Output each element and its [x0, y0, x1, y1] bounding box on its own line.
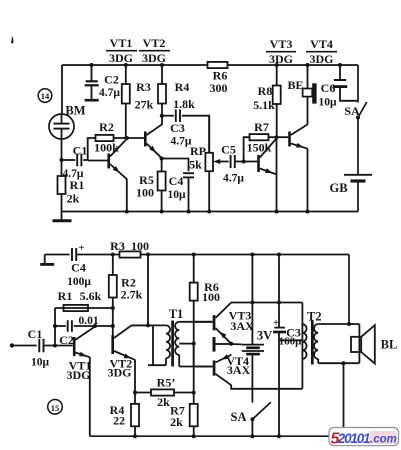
svg-text:C4: C4 — [71, 261, 86, 275]
svg-text:27k: 27k — [135, 98, 154, 112]
svg-text:100k: 100k — [94, 141, 119, 155]
svg-text:R5’: R5’ — [157, 376, 176, 390]
resistor R1 2k (top) — [58, 160, 85, 212]
wire C3 to T2 link — [279, 339, 302, 341]
svg-text:C1: C1 — [28, 327, 43, 341]
potentiometer RP 5k — [189, 116, 229, 214]
svg-text:+: + — [273, 318, 279, 329]
svg-text:3DG: 3DG — [67, 368, 91, 382]
svg-text:C4: C4 — [169, 174, 184, 188]
wire VT4 collector up to BE — [307, 97, 309, 125]
node T1 center tap — [192, 342, 196, 346]
svg-text:5k: 5k — [189, 158, 202, 172]
svg-text:14: 14 — [41, 91, 50, 101]
svg-text:3DG: 3DG — [142, 51, 166, 65]
wire VT3 emitter down to rail — [275, 137, 279, 213]
svg-text:2k: 2k — [157, 395, 170, 409]
svg-text:2k: 2k — [170, 415, 183, 429]
svg-text:4.7μ: 4.7μ — [171, 136, 192, 148]
node B (R7/R8/VT3 collector/VT4 base) — [275, 135, 279, 139]
resistor R5' 2k — [133, 376, 194, 410]
resistor R2 100k — [94, 120, 119, 155]
watermark 520101.com — [329, 428, 399, 448]
emitter common bar — [213, 337, 232, 352]
resistor R4 1.8k — [158, 63, 195, 125]
label VT1/3DG — [106, 36, 137, 65]
label VT3/3AX — [229, 309, 254, 334]
wire emitters to battery — [231, 343, 242, 345]
label T1 — [169, 307, 184, 321]
svg-text:+: + — [79, 243, 85, 254]
wire VT4 emitter down to rail — [306, 149, 310, 214]
label VT4/3AX — [226, 354, 250, 377]
svg-text:VT2: VT2 — [143, 36, 166, 50]
svg-text:C5: C5 — [221, 143, 236, 157]
transformer T1 core — [171, 321, 174, 367]
svg-text:R1: R1 — [70, 178, 85, 192]
wire bottom rail (bottom circuit) — [90, 435, 345, 437]
label VT2/3DG — [139, 36, 170, 65]
svg-text:R1: R1 — [58, 289, 73, 303]
transistor VT4 (bottom, 3AX) — [194, 354, 232, 385]
transformer T1 primary — [131, 325, 170, 365]
svg-text:2.7k: 2.7k — [121, 288, 143, 302]
svg-text:R8: R8 — [258, 84, 273, 98]
resistor R1 5.6k (bottom) — [55, 289, 113, 311]
wire VT2 emitter down to R4 — [134, 360, 136, 404]
capacitor C3 4.7u (top) — [162, 109, 209, 152]
transistor VT1 (bottom) — [73, 326, 95, 357]
resistor R2 2.7k (bottom) — [109, 253, 143, 336]
svg-text:3DG: 3DG — [108, 366, 132, 380]
svg-text:C3: C3 — [170, 121, 185, 135]
svg-text:BL: BL — [381, 338, 398, 352]
svg-text:160μ: 160μ — [279, 335, 303, 347]
capacitor C6 10u — [318, 63, 358, 109]
wire bottom rail (top circuit) — [62, 211, 359, 213]
resistor R8 5.1k — [253, 63, 281, 137]
svg-text:20101: 20101 — [337, 431, 370, 446]
capacitor C1 4.7u (top) — [62, 144, 88, 181]
wire supply rail (bottom circuit) — [141, 254, 350, 256]
resistor R3 100 (bottom, series) — [110, 239, 149, 258]
node VT2 emitter — [160, 157, 164, 161]
wire VT1 emitter down — [89, 357, 91, 436]
capacitor C2 4.7u with ground stub — [85, 63, 121, 100]
wire rail to C4 — [45, 254, 70, 256]
svg-text:15: 15 — [51, 403, 60, 413]
capacitor C5 4.7u — [221, 143, 244, 185]
label VT4/3DG — [306, 37, 337, 66]
svg-text:3V: 3V — [257, 329, 272, 343]
svg-text:10μ: 10μ — [167, 189, 186, 201]
svg-text:4.7μ: 4.7μ — [99, 87, 120, 99]
transformer T2 secondary — [314, 324, 359, 363]
svg-text:5.1k: 5.1k — [253, 98, 275, 112]
svg-text:GB: GB — [329, 181, 347, 195]
transistor VT2 (bottom) — [111, 326, 135, 360]
svg-text:3DG: 3DG — [310, 52, 334, 66]
transistor VT3 (bottom, 3AX) — [194, 303, 232, 344]
earphone BE — [287, 63, 316, 104]
svg-text:BM: BM — [65, 104, 85, 118]
svg-text:VT1: VT1 — [110, 36, 133, 50]
resistor R4 22 (bottom) — [110, 403, 139, 438]
transistor VT2 (top) — [127, 124, 162, 158]
wire R2 to node A — [114, 137, 127, 139]
svg-text:1.8k: 1.8k — [173, 97, 195, 111]
svg-text:10μ: 10μ — [318, 97, 337, 109]
svg-text:5.6k: 5.6k — [80, 289, 102, 303]
node tap/R5 junction — [192, 391, 196, 395]
resistor R6 300 (series in rail) — [208, 62, 228, 95]
capacitor C1 10u (bottom) — [28, 327, 73, 369]
capacitor C4 10u (top) — [162, 159, 194, 214]
svg-text:T2: T2 — [307, 310, 322, 324]
transformer T2 core — [311, 321, 314, 365]
wire T2 bottom drop — [343, 363, 345, 427]
switch SA (bottom) — [231, 402, 271, 438]
svg-text:10μ: 10μ — [31, 357, 50, 369]
svg-text:100: 100 — [136, 186, 154, 200]
wire SA to battery — [357, 118, 359, 175]
wire center tap down to R7 — [193, 344, 195, 404]
wire R1 left drop — [53, 308, 57, 346]
svg-text:100: 100 — [131, 239, 149, 253]
svg-text:VT3: VT3 — [270, 37, 293, 51]
label T2 — [307, 310, 322, 324]
wire battery top to rail — [250, 253, 254, 345]
svg-text:R2: R2 — [99, 120, 114, 134]
wire VT1 emitter down — [126, 179, 128, 212]
wire C4 to R3 — [76, 254, 119, 256]
svg-text:BE: BE — [287, 78, 303, 92]
svg-text:C6: C6 — [321, 81, 336, 95]
svg-text:3AX: 3AX — [230, 319, 254, 333]
wire VT2 collector to T1 — [131, 324, 153, 326]
svg-text:VT4: VT4 — [310, 37, 333, 51]
svg-text:SA: SA — [344, 104, 360, 118]
svg-text:.com: .com — [370, 434, 397, 446]
wire VT4 collector to T2 bottom — [231, 385, 302, 389]
battery GB — [329, 175, 372, 212]
input terminal (bottom) — [10, 343, 37, 347]
node emitters/battery — [229, 342, 233, 346]
svg-text:300: 300 — [210, 81, 228, 95]
svg-text:3DG: 3DG — [109, 51, 133, 65]
resistor R5 100 — [136, 159, 166, 214]
node VT1 collector — [93, 324, 97, 328]
circled label 14 — [38, 89, 52, 103]
svg-text:3AX: 3AX — [227, 363, 251, 377]
svg-text:R3: R3 — [110, 239, 125, 253]
wire collector rail (bottom) — [231, 302, 302, 304]
node C5/R7/VT3 base — [242, 160, 246, 164]
svg-text:SA: SA — [231, 410, 247, 424]
node C1/R1/VT1 base — [53, 344, 57, 348]
wire top supply rail (left of R6) — [62, 64, 208, 66]
ground (top circuit left) — [53, 212, 72, 221]
transistor VT3 (top) — [244, 138, 277, 175]
wire BM to node — [61, 139, 63, 160]
battery 3V — [242, 329, 272, 355]
microphone BM — [49, 104, 86, 140]
node R1/R2 junction — [111, 306, 115, 310]
svg-text:T1: T1 — [169, 307, 184, 321]
transformer T1 secondary — [175, 322, 213, 367]
node R4/C3/VT2 collector — [160, 114, 164, 118]
resistor R6 100 (bottom) — [190, 253, 220, 322]
label VT3/3DG — [266, 37, 296, 66]
stray ink tick top-left — [11, 36, 14, 44]
ground (bottom circuit) — [40, 255, 54, 265]
wire battery bottom to SA — [251, 354, 253, 403]
speaker BL — [351, 325, 397, 363]
svg-text:C2: C2 — [104, 73, 119, 87]
wire C1 node up to R2 — [88, 138, 96, 161]
transistor VT4 (top) — [277, 124, 308, 148]
capacitor C4 100u (bottom, series) — [67, 243, 91, 288]
wire top supply rail (right of R6) — [228, 64, 359, 66]
wire T1 supply drop — [146, 253, 150, 328]
label VT2/3DG (bottom) — [108, 357, 133, 380]
svg-text:C1: C1 — [73, 144, 88, 158]
node BM/C1/R1 junction — [60, 158, 64, 162]
svg-text:R7: R7 — [254, 120, 269, 134]
svg-text:100: 100 — [202, 290, 220, 304]
resistor R7 2k (bottom) — [170, 404, 198, 439]
circled label 15 — [48, 400, 63, 415]
capacitor C2 0.01 (bottom) — [55, 315, 113, 347]
svg-text:R4: R4 — [175, 80, 190, 94]
resistor R7 150k (top) — [244, 120, 277, 162]
svg-text:3DG: 3DG — [269, 52, 293, 66]
svg-text:R3: R3 — [136, 80, 151, 94]
svg-text:4.7μ: 4.7μ — [223, 173, 244, 185]
node A (R2/R3/VT1 collector/VT2 base) — [125, 136, 129, 140]
wire rail right drop to T2 — [347, 255, 351, 327]
transformer T2 primary — [302, 303, 306, 389]
svg-text:22: 22 — [113, 414, 125, 428]
svg-text:100μ: 100μ — [67, 276, 91, 288]
node T2 secondary bottom — [342, 361, 346, 365]
switch SA (top) — [344, 65, 366, 120]
label VT1/3DG (bottom) — [67, 359, 92, 383]
transistor VT1 (top) — [88, 139, 127, 180]
node VT1 emitter at rail — [125, 210, 129, 214]
node C2/R2 junction — [111, 324, 115, 328]
svg-text:RP: RP — [190, 144, 206, 158]
svg-text:2k: 2k — [67, 192, 80, 206]
resistor R3 27k — [122, 63, 154, 138]
capacitor C3 160u (bottom) — [273, 253, 302, 439]
wire left drop to microphone — [61, 65, 63, 114]
